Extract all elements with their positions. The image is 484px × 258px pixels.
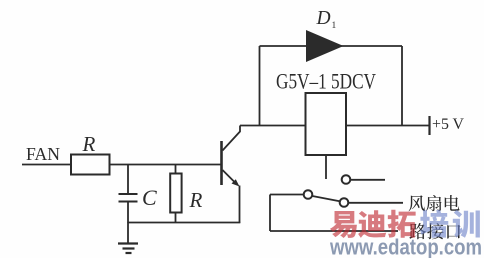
- wire capacitor to bottom rail: [127, 202, 129, 224]
- wire FAN input: [22, 164, 71, 166]
- switch contact C (lower): [340, 198, 349, 207]
- wire relay actuator: [325, 155, 327, 179]
- ground: [118, 223, 138, 254]
- wire R to transistor base: [110, 164, 222, 166]
- wire diode loop top: [260, 45, 403, 47]
- diode D1: [306, 30, 344, 62]
- wire junction to resistor R2: [175, 165, 177, 174]
- wire bottom rail: [128, 222, 240, 224]
- switch pivot contact B: [304, 190, 313, 199]
- label D1: [316, 8, 337, 31]
- svg-text:R: R: [82, 132, 96, 156]
- svg-text:G5V–1 5DCV: G5V–1 5DCV: [276, 69, 376, 94]
- relay K1 coil box: [306, 93, 347, 155]
- wire diode loop right vertical: [401, 46, 403, 126]
- wire junction to capacitor: [127, 165, 129, 195]
- svg-text:FAN: FAN: [26, 144, 60, 164]
- wire from contact A: [351, 179, 386, 181]
- resistor R (base to ground): [170, 174, 181, 213]
- wire switch left drop: [269, 195, 271, 232]
- svg-text:C: C: [142, 185, 157, 210]
- svg-text:D: D: [316, 8, 331, 29]
- label 风扇电 (fan circuit line 1): [409, 195, 460, 211]
- svg-text:+5 V: +5 V: [432, 116, 465, 133]
- resistor R (series input): [71, 155, 110, 175]
- svg-text:R: R: [189, 188, 203, 212]
- svg-text:1: 1: [332, 21, 337, 31]
- wire to switch pivot: [270, 194, 304, 196]
- wire from contact C: [349, 202, 404, 204]
- wire diode loop left vertical: [259, 46, 261, 126]
- capacitor C: [119, 194, 138, 202]
- wire resistor R2 to bottom rail: [175, 213, 177, 224]
- terminal +5V: [430, 116, 465, 135]
- svg-text:www.edatop.com: www.edatop.com: [329, 235, 482, 258]
- watermark 易迪拓培训: [330, 210, 480, 238]
- transistor Q1 (NPN): [222, 126, 241, 224]
- label 路接口 (fan circuit line 2): [409, 223, 460, 239]
- switch blade: [312, 196, 339, 201]
- switch contact A (upper): [342, 175, 351, 184]
- wire +5V rail (collector to +5V terminal): [240, 125, 429, 127]
- wire switch bottom return: [270, 230, 398, 232]
